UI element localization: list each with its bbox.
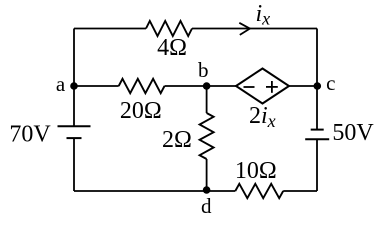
svg-text:a: a xyxy=(56,72,66,96)
svg-text:2ix: 2ix xyxy=(249,103,276,131)
resistor R 20ohm (middle) xyxy=(119,79,165,93)
node b junction dot xyxy=(203,82,211,90)
resistor R 4ohm (top) xyxy=(146,21,192,36)
dependent source 2i_x (diamond) xyxy=(236,69,289,104)
wire middle: resistor to node b xyxy=(165,85,207,87)
wire right: 50V source down to bottom-right corner xyxy=(316,139,318,191)
battery V1 70V (long plate = + top) xyxy=(58,126,91,138)
svg-text:d: d xyxy=(201,194,212,218)
wire middle: node b to dependent source xyxy=(207,85,236,87)
svg-text:ix: ix xyxy=(256,1,271,29)
minus sign inside source xyxy=(244,86,255,88)
wire left: top corner down to 70V source xyxy=(73,29,75,127)
svg-text:50V: 50V xyxy=(332,120,374,146)
wire left: 70V source down to bottom-left corner xyxy=(73,138,75,191)
battery V2 50V (short plate top, long plate bottom) xyxy=(305,130,329,140)
svg-text:2Ω: 2Ω xyxy=(162,127,192,153)
resistor R 2ohm (vertical) xyxy=(200,113,214,159)
node d junction dot xyxy=(203,186,211,194)
node a junction dot xyxy=(70,82,78,90)
wire bottom: node d to 10-ohm resistor xyxy=(207,190,236,192)
wire top: left corner to 4-ohm resistor xyxy=(74,28,146,30)
svg-text:c: c xyxy=(326,71,335,95)
svg-text:4Ω: 4Ω xyxy=(157,35,187,61)
wire center vertical: resistor down to node d xyxy=(206,159,208,191)
svg-text:b: b xyxy=(198,58,209,82)
wire bottom: resistor to bottom-right corner xyxy=(283,190,317,192)
svg-text:70V: 70V xyxy=(9,122,51,148)
node c junction dot xyxy=(314,82,322,90)
wire bottom: left corner to node d xyxy=(74,190,207,192)
plus sign inside source xyxy=(266,81,278,93)
wire center vertical: node b down to 2-ohm resistor xyxy=(206,86,208,113)
wire middle: node a to 20-ohm resistor xyxy=(74,85,119,87)
resistor R 10ohm (bottom) xyxy=(235,184,283,198)
wire top: resistor to top-right corner xyxy=(192,28,317,30)
current arrow i_x on top wire xyxy=(239,23,250,35)
svg-text:10Ω: 10Ω xyxy=(235,158,277,184)
svg-text:20Ω: 20Ω xyxy=(120,98,162,124)
wire right: top corner down to 50V source xyxy=(316,29,318,130)
wire middle: source to node c xyxy=(289,85,317,87)
